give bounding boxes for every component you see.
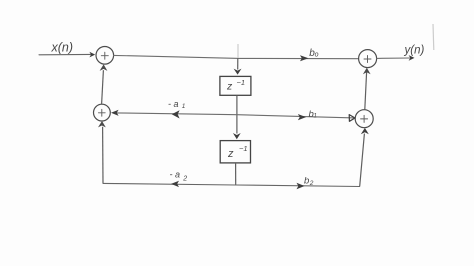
svg-text:z: z	[226, 80, 233, 92]
svg-text:2: 2	[182, 176, 187, 183]
svg-text:−1: −1	[237, 78, 246, 87]
svg-text:2: 2	[309, 180, 314, 187]
svg-text:x(n): x(n)	[51, 41, 74, 55]
svg-text:1: 1	[313, 112, 317, 119]
svg-text:y(n): y(n)	[404, 45, 425, 57]
svg-text:b: b	[304, 176, 309, 187]
svg-text:z: z	[227, 148, 234, 160]
svg-text:o: o	[315, 51, 319, 58]
svg-text:1: 1	[182, 103, 186, 110]
svg-text:- a: - a	[170, 169, 181, 179]
svg-text:−1: −1	[239, 144, 248, 153]
svg-text:- a: - a	[168, 99, 179, 109]
